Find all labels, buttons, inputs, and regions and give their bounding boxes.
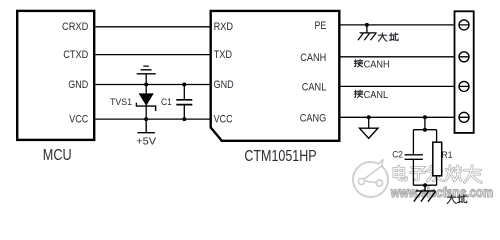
svg-text:C2: C2 [392,149,403,160]
svg-text:+5V: +5V [136,135,156,147]
svg-text:R1: R1 [442,150,453,161]
svg-text:PE: PE [315,20,327,32]
svg-text:MCU: MCU [43,147,72,164]
svg-text:GND: GND [214,79,234,91]
svg-text:VCC: VCC [69,114,88,126]
svg-text:CANL: CANL [364,90,389,101]
svg-text:VCC: VCC [214,114,233,126]
svg-text:CTXD: CTXD [63,49,88,61]
svg-text:GND: GND [68,79,88,91]
svg-text:CANH: CANH [364,59,390,70]
svg-text:TXD: TXD [214,49,233,61]
svg-text:CANH: CANH [300,52,326,64]
svg-text:RXD: RXD [214,21,234,33]
svg-text:CTM1051HP: CTM1051HP [244,148,316,165]
svg-text:CANG: CANG [300,112,327,124]
svg-text:CRXD: CRXD [62,21,88,33]
svg-text:C1: C1 [161,97,172,108]
svg-text:CANL: CANL [302,81,327,93]
svg-text:TVS1: TVS1 [110,97,132,108]
svg-text:www.elecfans.com: www.elecfans.com [390,185,493,200]
